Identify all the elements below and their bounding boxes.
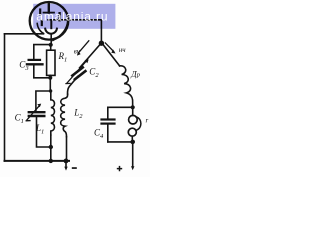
capacitor C4 lead bottom — [107, 124, 109, 142]
minus sign — [72, 167, 77, 169]
wire left rail — [4, 34, 6, 161]
tube anode vertical bar — [58, 13, 60, 20]
svg-text:amalania.ru: amalania.ru — [36, 9, 108, 23]
wire phones bottom — [108, 141, 133, 143]
choke Dr coil — [120, 66, 133, 107]
inductor L1 — [51, 91, 55, 135]
capacitor C4 plates — [102, 118, 115, 120]
phones stub top — [132, 107, 134, 115]
phones headband — [136, 117, 141, 130]
hf arrow line — [79, 41, 89, 53]
tube filament arc — [45, 29, 57, 34]
tube grid lead lower — [50, 22, 52, 29]
arrowhead lf — [111, 50, 115, 54]
labels — [15, 46, 149, 140]
watermark highlight — [33, 4, 115, 29]
capacitor C4 lead top — [107, 107, 109, 119]
wire grid elbow — [53, 21, 68, 40]
wire C2 to L2 — [68, 76, 78, 94]
lf arrow line — [105, 43, 113, 52]
arrowhead minus terminal — [64, 167, 67, 171]
tube anode bar — [44, 12, 55, 14]
tube V1 envelope — [30, 2, 69, 40]
arrowhead hf — [77, 51, 81, 55]
plus sign — [117, 166, 122, 171]
tube inner mark b — [39, 10, 41, 15]
capacitor C2 plate b — [75, 71, 86, 79]
inductor L2 — [61, 94, 68, 136]
arrowhead C2 variable — [85, 60, 89, 64]
battery plus lead — [132, 142, 134, 166]
wire filament hook to left rail — [5, 24, 45, 34]
tube inner mark — [41, 21, 43, 26]
svg-text:вч: вч — [74, 48, 81, 56]
svg-text:r: r — [146, 117, 149, 125]
phones stub bottom — [131, 136, 133, 142]
arrow of variable C2 — [66, 60, 88, 84]
capacitor C2 plate a — [72, 67, 83, 75]
wire node to choke diagonal — [103, 45, 119, 66]
wire C1 bottom — [37, 117, 51, 147]
wire node to C2 diagonal — [80, 45, 100, 68]
arrow of variable C1 — [26, 105, 40, 121]
arrowhead C1 variable — [37, 104, 41, 108]
wire anode to node — [48, 20, 101, 42]
wire L2 bottom — [66, 137, 68, 161]
wire R bottom down — [49, 75, 51, 91]
phones earpiece 1 — [129, 115, 138, 124]
tube anode lead — [48, 4, 50, 12]
wire tank top — [36, 91, 50, 112]
capacitor C3 plates — [29, 59, 40, 61]
wire phones top — [108, 106, 133, 108]
wire RC top — [34, 45, 51, 59]
wire C3 bottom — [34, 65, 51, 78]
wire ground bus — [5, 160, 70, 162]
svg-text:нч: нч — [119, 46, 126, 54]
capacitor C1 plates — [29, 111, 45, 113]
arrowhead plus terminal — [131, 166, 134, 170]
junction dots — [37, 41, 135, 171]
battery minus stub — [65, 161, 67, 168]
resistor R1 body — [47, 50, 55, 75]
phones earpiece 2 — [128, 128, 136, 136]
wire cathode lead down — [50, 35, 52, 45]
wire L1 bottom — [50, 135, 52, 161]
